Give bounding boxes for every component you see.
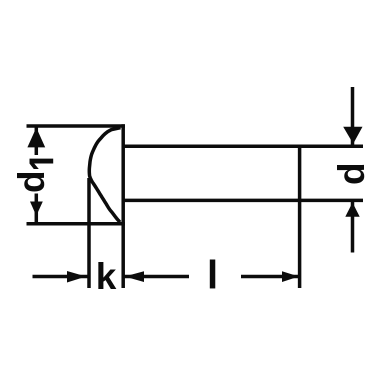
- svg-text:d: d: [11, 170, 52, 193]
- svg-text:l: l: [207, 254, 218, 298]
- svg-text:d: d: [331, 162, 372, 185]
- svg-text:k: k: [96, 256, 117, 297]
